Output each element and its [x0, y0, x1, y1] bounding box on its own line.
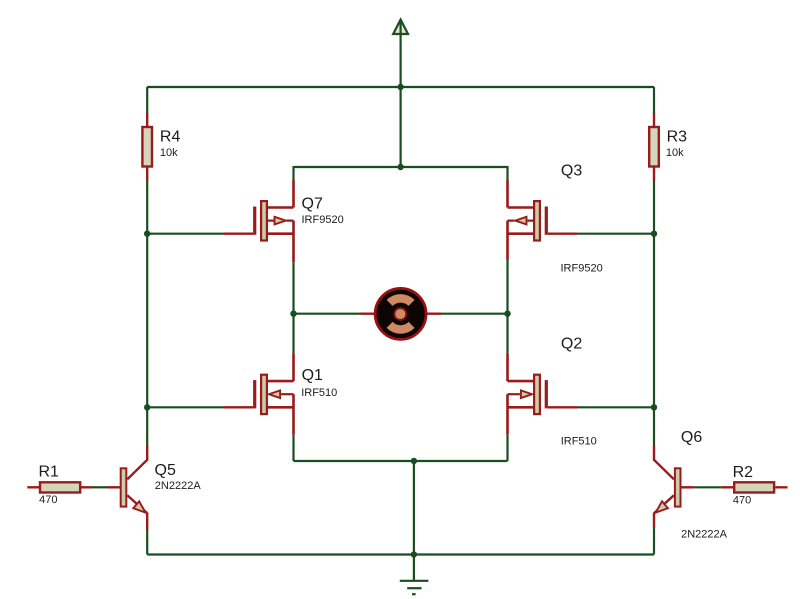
- wire: inner bottom rail: [294, 460, 508, 462]
- wire: motor rail down to Q1 drain: [292, 314, 294, 354]
- svg-text:IRF9520: IRF9520: [302, 214, 344, 226]
- node: junction left rail / Q7 gate wire: [144, 231, 150, 237]
- wire: inner top rail: [294, 166, 508, 168]
- wire: left rail middle segment: [146, 181, 148, 446]
- node: junction left rail / Q1 gate wire: [144, 404, 150, 410]
- wire: Q1 gate wire: [147, 406, 224, 408]
- transistor Q3 IRF9520 P-MOSFET mirrored: [508, 163, 603, 275]
- wire: Q7 source down to motor rail: [292, 262, 294, 313]
- ground symbol: [400, 581, 429, 594]
- node: junction right rail / Q3 gate wire: [651, 231, 657, 237]
- wire: motor rail right segment: [442, 313, 508, 315]
- svg-text:470: 470: [39, 494, 57, 506]
- motor M1: [361, 288, 442, 339]
- wire: Q3 gate wire: [577, 233, 654, 235]
- wire: power stem down to inner top rail: [400, 21, 402, 168]
- transistor Q2 IRF510 N-MOSFET mirrored: [508, 335, 597, 447]
- power symbol VCC arrow: [393, 20, 408, 35]
- svg-text:R3: R3: [667, 128, 688, 145]
- node: junction motor rail right: [504, 311, 510, 317]
- wire: inner top rail corner to Q3 drain: [506, 166, 508, 181]
- wire: Q1 source down to inner bottom rail: [292, 435, 294, 461]
- node: junction motor rail left: [290, 311, 296, 317]
- node: junction ground stem / bottom rail: [411, 551, 417, 557]
- wire: top rail: [147, 86, 654, 88]
- svg-text:10k: 10k: [666, 147, 684, 159]
- transistor Q7 IRF9520 P-MOSFET: [224, 180, 344, 262]
- wire: ground stem: [413, 461, 415, 581]
- wire: Q3 source down to motor rail: [506, 260, 508, 314]
- svg-text:10k: 10k: [160, 147, 178, 159]
- resistor R4: [142, 113, 180, 181]
- resistor R1: [27, 464, 92, 507]
- svg-text:2N2222A: 2N2222A: [681, 529, 728, 541]
- resistor R3: [649, 113, 687, 181]
- svg-text:Q7: Q7: [302, 195, 323, 212]
- svg-text:R4: R4: [160, 128, 181, 145]
- wire: Q5 emitter to bottom rail: [146, 529, 148, 554]
- wire: motor rail down to Q2 drain: [506, 314, 508, 354]
- wire: bottom rail: [147, 553, 654, 555]
- node: junction right rail / Q2 gate wire: [651, 404, 657, 410]
- wire: motor rail left segment: [294, 313, 361, 315]
- svg-text:2N2222A: 2N2222A: [155, 480, 202, 492]
- svg-text:Q6: Q6: [681, 429, 702, 446]
- node: junction power stem / inner top rail: [397, 164, 403, 170]
- wire: left rail top segment: [146, 87, 148, 114]
- wire: Q7 gate wire: [147, 233, 224, 235]
- svg-text:470: 470: [733, 494, 751, 506]
- transistor Q6 2N2222A NPN mirrored: [654, 429, 728, 541]
- svg-text:R2: R2: [733, 464, 754, 481]
- resistor R2: [722, 464, 788, 506]
- wire: right rail middle segment: [653, 181, 655, 446]
- transistor Q1 IRF510 N-MOSFET: [224, 354, 337, 435]
- wire: Q2 source down to inner bottom rail: [506, 435, 508, 461]
- wire: R1 to Q5 base: [92, 486, 108, 488]
- wire: Q6 base to R2: [694, 486, 722, 488]
- svg-text:Q2: Q2: [561, 335, 582, 352]
- svg-text:R1: R1: [39, 464, 60, 481]
- svg-text:Q5: Q5: [155, 462, 176, 479]
- svg-text:Q1: Q1: [302, 367, 323, 384]
- wire: Q2 gate wire: [577, 406, 654, 408]
- transistor Q5 2N2222A NPN: [108, 446, 202, 530]
- svg-text:IRF9520: IRF9520: [561, 263, 603, 275]
- svg-text:IRF510: IRF510: [561, 436, 597, 448]
- node: junction power stem / top rail: [397, 84, 403, 90]
- svg-text:IRF510: IRF510: [301, 387, 337, 399]
- node: junction inner bottom rail / ground stem: [411, 458, 417, 464]
- svg-text:Q3: Q3: [561, 163, 582, 180]
- wire: right rail top segment: [653, 87, 655, 114]
- wire: inner top rail corner to Q7 drain: [292, 166, 294, 181]
- wire: Q6 emitter to bottom rail: [653, 528, 655, 554]
